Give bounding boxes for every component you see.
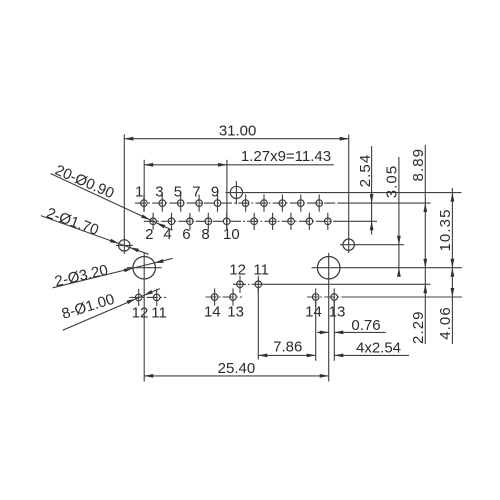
- svg-text:12: 12: [132, 305, 149, 322]
- dimension 3.05: [384, 157, 401, 277]
- pin bottom-right 4: [306, 213, 313, 230]
- svg-text:10.35: 10.35: [437, 208, 454, 251]
- pin 2: [150, 213, 157, 230]
- label pin 8: [201, 226, 209, 243]
- label 13 right: [329, 304, 346, 321]
- hole 1.70 right: [340, 135, 404, 253]
- label 12 left: [132, 305, 149, 322]
- pin top-right 5: [316, 195, 323, 212]
- svg-text:14: 14: [204, 303, 221, 320]
- svg-text:2: 2: [145, 226, 153, 243]
- svg-text:7: 7: [192, 183, 200, 200]
- pin 11 middle: [255, 276, 262, 293]
- pin 4: [168, 213, 175, 230]
- pin top-right 2: [261, 195, 268, 212]
- svg-text:14: 14: [305, 304, 322, 321]
- pin top-right 4: [298, 195, 305, 212]
- pin 6: [187, 213, 194, 230]
- label 13 middle: [227, 303, 244, 320]
- dimension 2.29: [410, 284, 427, 344]
- svg-text:13: 13: [329, 304, 346, 321]
- dimension 8.89: [410, 145, 427, 344]
- pin 9: [214, 195, 221, 212]
- pin bottom-right 5: [325, 213, 332, 230]
- dimension 31.00: [124, 122, 348, 140]
- label pin 2: [145, 226, 153, 243]
- svg-text:2.54: 2.54: [357, 154, 374, 188]
- svg-text:2.29: 2.29: [410, 310, 427, 344]
- dimension 2.54: [357, 146, 374, 235]
- svg-text:3: 3: [155, 183, 163, 200]
- pin 14 middle: [211, 288, 218, 305]
- svg-text:0.76: 0.76: [351, 317, 380, 334]
- label 12 middle: [229, 261, 246, 278]
- leader 2-Ø3.20: [53, 258, 173, 290]
- pin 14 right: [312, 288, 319, 305]
- svg-text:7.86: 7.86: [273, 339, 302, 356]
- leader 20-Ø0.90: [51, 162, 173, 231]
- svg-text:10: 10: [223, 226, 240, 243]
- pin 13 right: [331, 288, 338, 305]
- svg-text:4x2.54: 4x2.54: [356, 339, 401, 356]
- label pin 1: [135, 183, 143, 200]
- row 11-12 centerline: [233, 283, 431, 285]
- svg-text:5: 5: [174, 183, 182, 200]
- dimension 7.86: [258, 288, 315, 361]
- middle locating hole: [226, 181, 462, 204]
- svg-text:31.00: 31.00: [219, 122, 257, 139]
- top pin row centerline: [135, 202, 431, 204]
- svg-text:4.06: 4.06: [437, 306, 454, 340]
- label pin 6: [182, 226, 190, 243]
- pin 7: [196, 195, 203, 212]
- pin 12 middle: [237, 276, 244, 293]
- leader 8-Ø1.00: [60, 289, 160, 331]
- label 11 middle: [253, 261, 269, 278]
- row 13-14 centerline left: [130, 296, 167, 298]
- pin top-right 3: [279, 195, 286, 212]
- row 13-14 centerline middle: [206, 296, 243, 298]
- label pin 10: [223, 226, 240, 243]
- svg-text:8.89: 8.89: [410, 148, 427, 182]
- pin 3: [159, 195, 166, 212]
- svg-text:11: 11: [253, 261, 269, 278]
- hole 1.70 left: [116, 134, 133, 254]
- pin 8: [205, 213, 212, 230]
- pin 11 left: [153, 289, 160, 306]
- svg-text:6: 6: [182, 226, 190, 243]
- label pin 3: [155, 183, 163, 200]
- svg-text:1.27x9=11.43: 1.27x9=11.43: [241, 148, 331, 165]
- dimension 25.40: [144, 360, 329, 378]
- svg-text:13: 13: [227, 303, 244, 320]
- svg-text:1: 1: [135, 183, 143, 200]
- svg-text:9: 9: [211, 183, 219, 200]
- pin bottom-right 2: [269, 213, 276, 230]
- label pin 5: [174, 183, 182, 200]
- dimension 0.76: [317, 317, 386, 334]
- hole 3.20 left: [127, 253, 162, 382]
- svg-text:12: 12: [229, 261, 246, 278]
- pin 5: [177, 195, 184, 212]
- svg-text:8: 8: [201, 226, 209, 243]
- pin top-right 1: [242, 195, 249, 212]
- label pin 9: [211, 183, 219, 200]
- pin 10: [223, 213, 230, 230]
- pin bottom-right 3: [288, 213, 295, 230]
- svg-text:11: 11: [151, 305, 167, 322]
- svg-text:25.40: 25.40: [218, 360, 256, 377]
- hole 3.20 right: [312, 253, 463, 382]
- pin 12 left: [135, 289, 142, 306]
- pin bottom-right 1: [251, 213, 258, 230]
- label pin 7: [192, 183, 200, 200]
- label 11 left: [151, 305, 167, 322]
- dimension 4.06: [437, 268, 454, 340]
- dimension 4x2.54: [334, 301, 409, 361]
- dimension 10.35: [437, 188, 454, 344]
- label 14 right: [305, 304, 322, 321]
- bottom pin row centerline: [144, 220, 377, 222]
- pin 13 middle: [230, 288, 237, 305]
- svg-text:3.05: 3.05: [384, 165, 401, 199]
- leader 2-Ø1.70: [41, 205, 149, 255]
- label 14 middle: [204, 303, 221, 320]
- pin 1: [141, 195, 148, 212]
- dimension 1.27x9=11.43: [144, 148, 334, 230]
- label pin 4: [163, 226, 171, 243]
- row 13-14 centerline right: [307, 296, 462, 298]
